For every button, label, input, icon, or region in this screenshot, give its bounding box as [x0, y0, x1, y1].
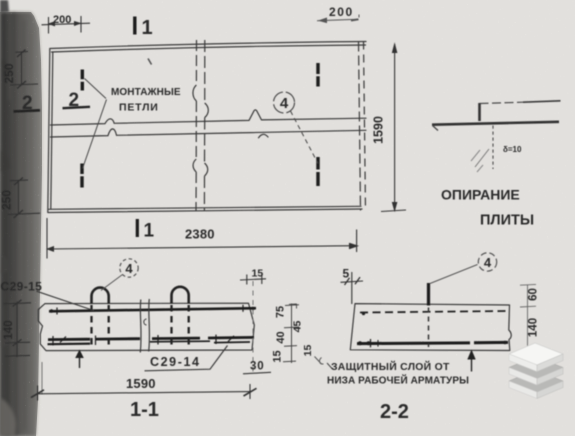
mounting loop marks in plan (thick bars) — [82, 63, 318, 188]
right dims 60 / 140 of section 2-2 (rotated) — [520, 284, 536, 351]
svg-text:НИЗА РАБОЧЕЙ АРМАТУРЫ: НИЗА РАБОЧЕЙ АРМАТУРЫ — [327, 374, 469, 387]
svg-text:140: 140 — [3, 320, 15, 339]
loop upper-left — [81, 70, 84, 91]
dim 2380 under plan — [47, 218, 357, 259]
leader lines to loops — [83, 79, 107, 169]
svg-text:4: 4 — [125, 261, 133, 276]
top-left dark patch — [0, 0, 9, 13]
loop upper-right — [316, 63, 319, 87]
svg-text:1590: 1590 — [126, 376, 156, 391]
vertical tick — [478, 103, 481, 121]
top distribution bar (dashed) — [360, 311, 508, 313]
svg-text:1: 1 — [142, 17, 153, 39]
circled 4 in plan — [274, 92, 319, 164]
outline (trapezoid) — [350, 304, 511, 351]
top reinforcement bar — [49, 305, 256, 315]
scanner edge gray band — [0, 12, 42, 436]
section mark 1 bottom — [137, 219, 154, 242]
outline — [38, 303, 254, 350]
svg-text:200: 200 — [53, 14, 71, 26]
break lines in middle of section — [140, 299, 149, 353]
dim 140 left (rotated) — [4, 300, 32, 357]
dim 15 top right of section 1-1 — [240, 274, 266, 372]
middle break line right — [204, 40, 206, 102]
dim 1590 under section 1-1 — [31, 362, 257, 401]
plan outline right edge (dashed double line) — [359, 42, 361, 210]
dim 200 top-right — [317, 15, 359, 23]
svg-text:δ=10: δ=10 — [503, 145, 522, 154]
svg-text:2-2: 2-2 — [380, 401, 409, 423]
section mark 1 top — [135, 17, 153, 40]
mounting loop 2 in section — [172, 287, 189, 347]
loop lower-left — [80, 164, 83, 188]
arrow under section 2-2 — [467, 350, 475, 372]
svg-text:60: 60 — [528, 288, 540, 301]
svg-text:ЗАЩИТНЫЙ СЛОЙ ОТ: ЗАЩИТНЫЙ СЛОЙ ОТ — [331, 360, 450, 373]
leader to circled 4 — [430, 265, 478, 284]
svg-text:45: 45 — [292, 321, 304, 333]
joint line upper with loop bump — [51, 110, 367, 125]
bottom reinforcement bar (dashed) — [48, 335, 255, 346]
middle break line left — [193, 40, 208, 211]
loop lower-right — [316, 157, 319, 186]
dim 250 lower-left (rotated) — [8, 178, 41, 219]
dim 250 upper-left (rotated) — [10, 50, 38, 89]
svg-text:140: 140 — [528, 318, 540, 337]
right dims column 75/40/15 + 45/15 (rotated) — [283, 304, 299, 364]
circled 4 for section 2-2 — [478, 253, 496, 271]
svg-text:МОНТАЖНЫЕ: МОНТАЖНЫЕ — [111, 87, 181, 98]
svg-text:С29-15: С29-15 — [1, 280, 43, 294]
svg-text:250: 250 — [0, 190, 14, 210]
small mark on lower joint — [259, 134, 269, 137]
dim 200 top-left — [42, 16, 91, 34]
svg-text:15: 15 — [252, 268, 264, 280]
svg-text:30: 30 — [250, 361, 264, 373]
svg-text:2380: 2380 — [185, 227, 215, 242]
support surface line — [432, 122, 559, 125]
svg-text:200: 200 — [329, 5, 354, 19]
bottom-left dark blob — [0, 398, 16, 436]
plan outline top edge (double line) — [50, 42, 366, 49]
plate 1 (top) — [509, 343, 563, 372]
plate 2 (middle) — [509, 357, 563, 386]
svg-text:1-1: 1-1 — [130, 399, 159, 421]
hatch marks — [475, 149, 489, 167]
band grain overlay — [0, 12, 42, 436]
plan outline bottom edge (double line) — [48, 209, 362, 213]
svg-text:ПЕТЛИ: ПЕТЛИ — [119, 102, 159, 114]
svg-text:4: 4 — [484, 255, 492, 270]
vertical bar 4 in section 2-2 — [427, 283, 430, 306]
svg-text:75: 75 — [275, 306, 287, 318]
arrow under section 1-1 — [75, 350, 84, 369]
stray scan mark — [148, 59, 152, 65]
plate 3 (bottom) — [509, 370, 563, 399]
svg-text:С29-14: С29-14 — [150, 355, 201, 369]
scanner band dark streaks — [4, 12, 31, 436]
svg-text:15: 15 — [272, 350, 284, 362]
svg-text:ПЛИТЫ: ПЛИТЫ — [480, 213, 534, 229]
svg-text:250: 250 — [2, 63, 16, 83]
joint line lower with loop bump — [51, 129, 367, 137]
slab top line — [480, 102, 524, 103]
svg-text:1590: 1590 — [372, 116, 386, 144]
bottom working bar (thick) — [357, 339, 508, 347]
plan outline left edge (double line) — [48, 49, 50, 213]
svg-text:40: 40 — [275, 331, 287, 343]
svg-text:15: 15 — [302, 345, 314, 357]
dim 1590 right of plan (rotated) — [381, 44, 406, 212]
dashed vertical below — [492, 126, 494, 170]
mounting loop 1 in section — [92, 288, 109, 347]
note text with leader — [327, 363, 332, 369]
svg-text:1: 1 — [144, 221, 155, 242]
svg-text:4: 4 — [280, 95, 289, 112]
svg-text:ОПИРАНИЕ: ОПИРАНИЕ — [441, 187, 520, 203]
circled 4 (dashed) for loops — [101, 259, 138, 291]
